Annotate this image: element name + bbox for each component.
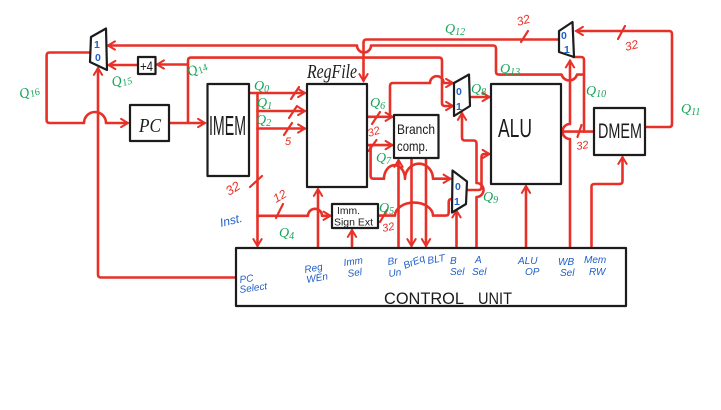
svg-text:Sel: Sel: [472, 267, 487, 278]
svg-text:B: B: [450, 256, 457, 267]
svg-text:UNIT: UNIT: [478, 289, 512, 308]
svg-text:comp.: comp.: [397, 138, 428, 154]
svg-text:Q12: Q12: [445, 22, 465, 38]
svg-text:OP: OP: [525, 267, 540, 278]
svg-text:Q16: Q16: [17, 82, 41, 104]
svg-text:Q8: Q8: [471, 82, 486, 98]
svg-text:Inst.: Inst.: [218, 211, 243, 230]
svg-text:Q15: Q15: [110, 71, 134, 92]
svg-text:WB: WB: [558, 257, 574, 268]
svg-text:ALU: ALU: [517, 256, 538, 267]
svg-text:RW: RW: [589, 267, 607, 278]
svg-text:Q11: Q11: [681, 102, 700, 118]
svg-text:32: 32: [515, 12, 532, 29]
svg-text:Q2: Q2: [256, 113, 271, 129]
svg-text:5: 5: [285, 136, 292, 148]
svg-text:32: 32: [623, 37, 640, 54]
svg-text:Imm.: Imm.: [337, 205, 360, 217]
svg-text:Q13: Q13: [500, 62, 520, 78]
svg-text:1: 1: [456, 101, 462, 113]
svg-text:32: 32: [223, 178, 244, 199]
svg-text:Q10: Q10: [586, 84, 606, 100]
svg-text:IMEM: IMEM: [209, 110, 246, 141]
svg-text:Sign Ext: Sign Ext: [334, 217, 373, 229]
svg-text:Q4: Q4: [279, 226, 294, 242]
svg-text:RegFile: RegFile: [306, 61, 357, 83]
svg-text:32: 32: [381, 221, 395, 235]
svg-text:0: 0: [455, 181, 461, 193]
svg-text:1: 1: [564, 44, 570, 56]
svg-text:0: 0: [95, 52, 101, 64]
svg-text:1: 1: [94, 39, 100, 51]
svg-text:Q6: Q6: [370, 96, 385, 112]
svg-text:Un: Un: [388, 267, 403, 280]
svg-text:+4: +4: [140, 59, 153, 74]
svg-text:0: 0: [561, 30, 567, 42]
svg-text:Q0: Q0: [254, 79, 269, 95]
svg-text:0: 0: [456, 86, 462, 98]
svg-text:Q5: Q5: [379, 201, 394, 217]
svg-text:DMEM: DMEM: [598, 120, 642, 143]
svg-text:PC: PC: [138, 115, 161, 137]
svg-text:32: 32: [575, 139, 589, 153]
svg-text:Q1: Q1: [257, 96, 272, 112]
svg-text:Sel: Sel: [560, 268, 575, 279]
svg-text:ALU: ALU: [498, 113, 532, 143]
svg-text:CONTROL: CONTROL: [384, 289, 464, 308]
svg-text:Branch: Branch: [397, 121, 435, 137]
svg-text:1: 1: [454, 196, 460, 208]
svg-text:Q7: Q7: [376, 151, 392, 167]
svg-text:Q9: Q9: [483, 190, 498, 206]
svg-text:12: 12: [271, 187, 290, 206]
svg-text:Sel: Sel: [347, 267, 364, 280]
svg-text:Sel: Sel: [450, 267, 465, 278]
svg-text:Mem: Mem: [584, 255, 606, 266]
svg-text:A: A: [474, 255, 482, 266]
svg-text:32: 32: [366, 125, 381, 140]
